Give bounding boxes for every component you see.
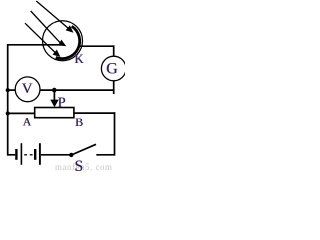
svg-text:V: V bbox=[22, 81, 33, 97]
svg-text:P: P bbox=[58, 95, 66, 111]
svg-text:S: S bbox=[75, 158, 84, 172]
svg-text:K: K bbox=[75, 52, 84, 66]
svg-text:B: B bbox=[75, 115, 83, 129]
svg-text:manfen5. com: manfen5. com bbox=[55, 162, 112, 172]
svg-text:A: A bbox=[23, 115, 32, 128]
svg-text:G: G bbox=[106, 60, 118, 77]
